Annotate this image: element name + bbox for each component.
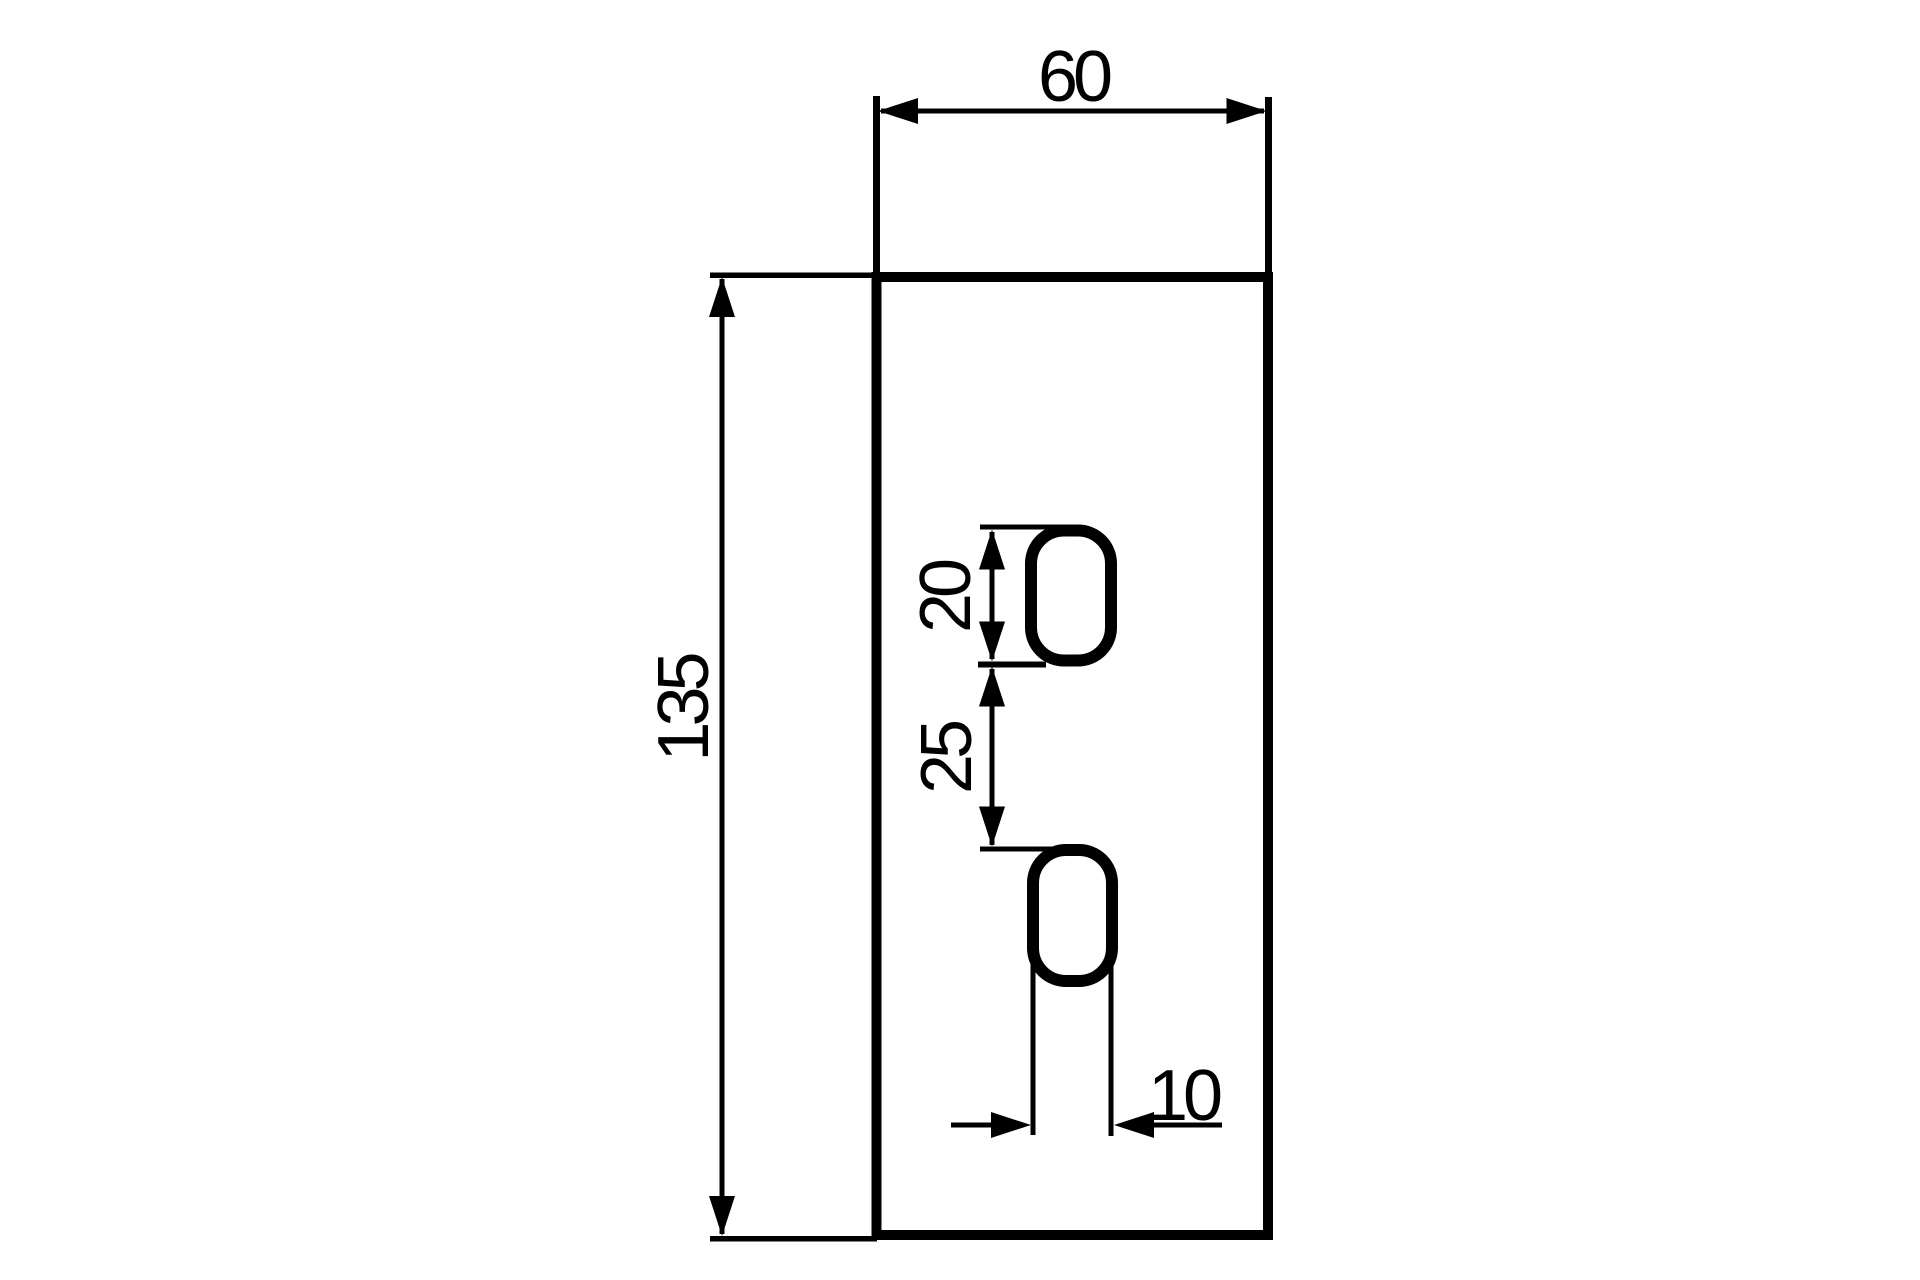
dimension 135: top arrowhead: [709, 277, 735, 317]
dimension 20: dimension line: [990, 532, 995, 659]
dimension 25: bottom arrowhead: [979, 807, 1005, 847]
dimension 20: middle extension line: [978, 662, 1046, 668]
dimension 10: right extension line: [1109, 950, 1114, 1136]
dimension 135: bottom extension line: [710, 1236, 877, 1242]
dimension 60: right arrowhead: [1227, 98, 1267, 124]
dimension 10: value label: [1148, 1056, 1221, 1136]
dimension 10: right leader line: [1151, 1123, 1222, 1128]
dimension 60: value label: [1038, 37, 1111, 117]
dimension 25: top arrowhead: [979, 667, 1005, 707]
dimension 10: left arrowhead: [991, 1112, 1031, 1138]
svg-text:25: 25: [907, 721, 987, 794]
dimension 20: value label (rotated): [906, 560, 986, 633]
dimension 60: left arrowhead: [878, 98, 918, 124]
dimension 60: left extension line: [873, 96, 880, 277]
dimension 10: left extension line: [1031, 950, 1036, 1135]
plate outline (60 x 135 rectangle): [877, 277, 1269, 1235]
dimension 20: top arrowhead: [979, 530, 1005, 570]
dimension 10: right arrowhead: [1114, 1112, 1154, 1138]
dimension 20: top extension line: [980, 525, 1071, 530]
dimension 20: bottom arrowhead: [979, 622, 1005, 662]
dimension 10: left leader line: [951, 1123, 996, 1128]
dimension 135: value label (rotated): [644, 653, 724, 761]
svg-text:135: 135: [644, 653, 724, 761]
slot 2 (lower oval slot): [1033, 850, 1112, 981]
slot 1 (upper oval slot): [1031, 531, 1111, 661]
dimension 60: right extension line: [1265, 97, 1272, 277]
dimension 135: bottom arrowhead: [709, 1196, 735, 1236]
svg-text:10: 10: [1148, 1056, 1221, 1136]
dimension 25: bottom extension line: [980, 847, 1071, 852]
dimension 60: dimension line: [881, 109, 1264, 114]
dimension 25: dimension line: [990, 669, 995, 845]
dimension 25: value label (rotated): [907, 721, 987, 794]
svg-text:60: 60: [1038, 37, 1111, 117]
dimension 135: top extension line: [710, 273, 877, 279]
dimension 135: dimension line: [720, 279, 725, 1234]
svg-text:20: 20: [906, 560, 986, 633]
